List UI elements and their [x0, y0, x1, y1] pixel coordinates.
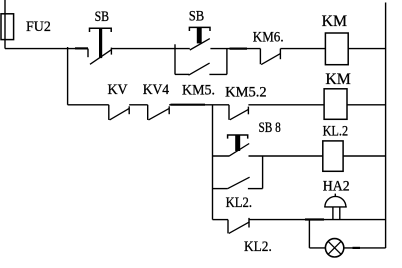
wire row3 left segment — [213, 155, 230, 157]
svg-text:KM5.2: KM5.2 — [225, 85, 267, 101]
wire row3 right segment — [249, 155, 323, 157]
svg-text:KL.2: KL.2 — [323, 123, 349, 139]
svg-text:FU2: FU2 — [26, 19, 51, 35]
wire row2 segment F — [68, 104, 109, 106]
svg-text:SB: SB — [189, 9, 205, 25]
wire row2 segment H — [169, 104, 229, 106]
bell HA2 right leg — [339, 207, 341, 220]
wire row1 thick overlay near KM6 — [230, 47, 248, 49]
lamp HL circle — [325, 239, 343, 257]
node junction row1 to row2 branch — [67, 47, 69, 105]
wire row2 segment J — [347, 104, 386, 106]
contact KV blade — [110, 108, 130, 120]
wire lamp branch drop — [308, 220, 310, 248]
contact KM6 right tick — [279, 49, 281, 60]
pushbutton SB8 actuator T-bar — [228, 135, 248, 139]
wire row4 left segment — [213, 219, 229, 221]
contact KV4 blade — [149, 108, 170, 120]
pushbutton SB (NO start) plunger — [197, 27, 202, 43]
svg-text:KM: KM — [325, 71, 350, 88]
wire SB8 lower contact left horizontal — [213, 188, 228, 190]
pushbutton SB (NC) actuator T-bar — [90, 28, 112, 32]
contact KL2 right tick — [248, 218, 250, 228]
pushbutton SB (NO start) main blade — [190, 39, 210, 50]
pushbutton SB (NC) right terminal tick — [110, 48, 112, 55]
svg-text:HA2: HA2 — [323, 178, 350, 194]
pushbutton SB8 plunger — [235, 135, 240, 151]
pushbutton SB lower contact blade — [189, 63, 210, 75]
bell HA2 top nub — [334, 194, 336, 197]
bell HA2 left leg — [332, 207, 334, 220]
pushbutton SB8 main blade — [229, 144, 249, 157]
contact KM6 left drop — [259, 49, 261, 65]
pushbutton SB8 lower blade — [228, 177, 250, 188]
wire branch vertical to lower rows — [212, 105, 214, 220]
svg-text:KV: KV — [108, 82, 129, 98]
wire row2 segment I — [248, 104, 324, 106]
contact KL2 blade — [229, 222, 250, 234]
svg-text:KM6.: KM6. — [253, 29, 284, 45]
contact KM6 blade — [261, 54, 280, 65]
wire row1 segment B — [111, 48, 189, 50]
wire SB lower contact right horizontal — [209, 73, 227, 75]
svg-text:KV4: KV4 — [143, 82, 170, 98]
svg-text:KM: KM — [322, 13, 347, 30]
wire SB lower contact riser — [226, 49, 228, 75]
svg-text:KL2.: KL2. — [244, 238, 272, 255]
contact KM5.2 right tick — [247, 107, 249, 115]
contact KV left drop — [108, 105, 110, 120]
pushbutton SB (NC) left terminal drop — [87, 49, 89, 58]
fuse FU2 — [1, 14, 14, 40]
wire SB8 lower contact right horizontal — [248, 188, 263, 190]
wire row5 right segment — [344, 247, 386, 249]
wire row3 segment K — [343, 155, 386, 157]
bell HA2 base line — [324, 206, 347, 208]
wire row4 segment M — [249, 219, 386, 221]
coil KM (row1) — [325, 33, 348, 65]
svg-text:KL2.: KL2. — [226, 195, 252, 211]
lamp HL cross stroke 1 — [328, 241, 341, 254]
wire row1 segment E — [348, 48, 385, 50]
contact KM5.2 blade — [230, 109, 249, 119]
lamp HL cross stroke 2 — [328, 241, 341, 254]
node junction branch to SB lower contact — [174, 44, 176, 74]
pushbutton SB (NC) plunger — [99, 28, 102, 59]
pushbutton SB (NC) moving blade — [90, 50, 111, 65]
wire SB8 lower contact junction drop — [262, 156, 264, 189]
wire row4 thick overlay — [305, 218, 324, 220]
svg-text:SB: SB — [95, 9, 110, 25]
coil KM (row2) — [324, 89, 347, 120]
wire row5 left segment — [309, 247, 325, 249]
coil KL.2 — [323, 141, 343, 171]
wire row1 segment C — [210, 48, 260, 50]
wire row1 thick overlay near SB — [75, 47, 88, 49]
wire left supply vertical — [4, 0, 6, 49]
wire right bus — [385, 3, 387, 249]
contact KV4 right tick — [168, 106, 170, 114]
contact KV right tick — [128, 106, 130, 114]
contact KM5.2 left drop — [228, 105, 230, 120]
bell HA2 dome — [325, 196, 346, 206]
wire SB lower contact left horizontal — [175, 73, 189, 75]
svg-text:KM5.: KM5. — [182, 83, 215, 99]
wire row2 segment G — [129, 104, 148, 106]
wire row2 thick overlay — [171, 104, 206, 106]
svg-text:SB 8: SB 8 — [259, 120, 281, 136]
wire row1 segment A — [5, 48, 88, 50]
contact KL2 left drop — [227, 220, 229, 234]
contact KV4 left drop — [147, 105, 149, 120]
wire row5 thick overlay — [353, 247, 361, 249]
wire row1 segment D — [280, 48, 325, 50]
pushbutton SB (NO start) actuator T-bar — [189, 27, 210, 31]
